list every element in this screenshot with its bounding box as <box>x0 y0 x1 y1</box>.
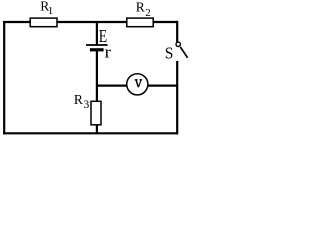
wire battery branch lower <box>96 124 98 134</box>
wire battery branch middle <box>96 50 98 102</box>
wire left rail <box>3 21 5 134</box>
resistor R3 <box>91 101 101 125</box>
wire right rail upper <box>176 21 178 43</box>
wire right rail lower <box>176 61 178 134</box>
wire voltmeter branch <box>97 84 177 86</box>
resistor R2 <box>127 18 153 27</box>
svg-text:S: S <box>165 44 174 63</box>
svg-text:3: 3 <box>84 99 90 111</box>
resistor R1 <box>30 18 57 27</box>
svg-text:r: r <box>105 43 112 62</box>
battery E short thick plate <box>90 48 104 51</box>
battery E long plate <box>86 44 108 46</box>
wire bottom rail <box>3 132 178 134</box>
wire battery branch upper <box>96 22 98 45</box>
voltmeter V <box>127 74 148 95</box>
wire top rail <box>3 21 178 23</box>
switch S contact circle <box>176 42 180 46</box>
svg-text:2: 2 <box>145 7 151 19</box>
svg-text:R: R <box>136 0 145 14</box>
label V inside voltmeter <box>135 80 142 87</box>
svg-text:R: R <box>74 92 83 107</box>
svg-text:1: 1 <box>48 5 54 17</box>
switch S blade <box>180 47 187 58</box>
